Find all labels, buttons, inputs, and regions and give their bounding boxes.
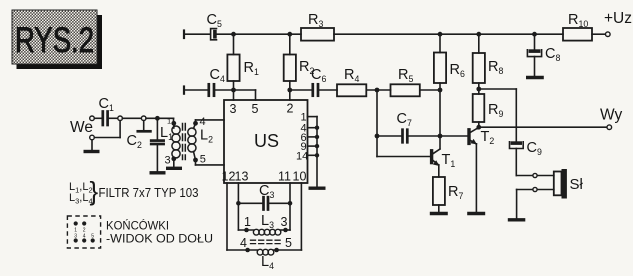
svg-text:C7: C7: [397, 111, 412, 128]
svg-text:R1: R1: [244, 60, 259, 77]
op-amp U1 IC US body: [224, 100, 308, 183]
resistor R5: [391, 67, 441, 96]
wire to pin 5: [234, 90, 256, 100]
svg-text:2: 2: [287, 102, 294, 116]
capacitor C3: [238, 183, 290, 210]
svg-text:5: 5: [252, 102, 259, 116]
svg-text:C2: C2: [127, 133, 142, 150]
node pin4 common: [315, 126, 319, 130]
svg-text:R4: R4: [344, 67, 359, 84]
transistor T2: [469, 127, 494, 211]
capacitor C5: [207, 12, 222, 40]
wire input line: [122, 117, 141, 119]
resistor R10: [563, 12, 592, 41]
node C2 junction: [155, 116, 160, 121]
svg-text:4: 4: [240, 236, 247, 250]
node rail-R1: [231, 32, 236, 37]
ground under T2 emitter: [467, 212, 485, 215]
wire R4 node down to T1 base: [377, 90, 431, 157]
svg-text:KOŃCÓWKI: KOŃCÓWKI: [106, 218, 169, 233]
node R8-R9 junction: [476, 87, 481, 92]
capacitor C7: [377, 111, 440, 142]
capacitor C2: [127, 118, 164, 171]
node test point with stub: [138, 116, 151, 131]
svg-text:4: 4: [200, 116, 206, 128]
terminal Wy: [600, 107, 622, 130]
svg-text:L3: L3: [261, 213, 274, 230]
node R4-R5 junction: [375, 88, 380, 93]
node pin9 common: [315, 144, 319, 148]
svg-text:R3: R3: [308, 12, 323, 29]
svg-text:1: 1: [167, 117, 171, 126]
node R1-C4 junction: [231, 88, 236, 93]
svg-text:L4: L4: [261, 254, 274, 271]
ground under R7: [430, 212, 448, 215]
wire L2 pin5 to US: [196, 160, 225, 165]
resistor R6: [434, 34, 465, 90]
svg-text:}: }: [90, 176, 99, 206]
node C7-T2base-T1coll: [438, 134, 443, 139]
terminal We input: [70, 116, 94, 140]
svg-text:10: 10: [293, 170, 307, 184]
svg-text:R8: R8: [488, 59, 503, 76]
node rail-C8: [532, 32, 537, 37]
transformer core L1-L2: [183, 124, 186, 160]
wire top supply rail: [184, 31, 605, 39]
svg-text:13: 13: [235, 170, 249, 184]
svg-text:C5: C5: [207, 12, 222, 29]
node R5-R6 junction: [438, 88, 443, 93]
wire pin11 down: [289, 183, 291, 230]
wire pin12 down: [226, 183, 228, 250]
value label filter note: [69, 176, 199, 206]
capacitor C1: [94, 96, 118, 125]
transistor T1: [432, 149, 456, 177]
svg-text:3: 3: [230, 102, 237, 116]
svg-text:3: 3: [281, 215, 288, 229]
node connector after C1: [118, 116, 123, 121]
resistor R1: [227, 34, 259, 90]
svg-text:Wy: Wy: [600, 107, 622, 124]
resistor R8: [473, 34, 504, 89]
svg-text:C1: C1: [99, 96, 114, 113]
node pin6 common: [315, 135, 319, 139]
svg-text:US: US: [254, 131, 279, 151]
wire to pin 3: [233, 90, 235, 100]
terminal +Uz: [604, 10, 632, 37]
resistor R4: [337, 67, 391, 96]
svg-text:L2: L2: [200, 128, 213, 145]
ground under C8: [526, 76, 544, 79]
resistor R3: [301, 12, 334, 41]
resistor R9: [473, 89, 504, 127]
transformer core L3-L4: [240, 236, 292, 250]
inductor L3: [238, 213, 290, 235]
svg-text:C9: C9: [527, 140, 542, 157]
inductor L4: [227, 248, 301, 271]
ground under C2: [150, 171, 166, 174]
node C3 right: [288, 201, 293, 206]
ground under L1: [166, 167, 182, 170]
svg-text:R7: R7: [448, 184, 463, 201]
legend pinout box: [67, 216, 100, 248]
wire L2 pin4 to US: [196, 120, 225, 123]
figure label RYS.2: [12, 10, 102, 69]
resistor R7: [433, 177, 464, 212]
svg-text:C4: C4: [210, 67, 225, 84]
wire speaker return: [517, 187, 554, 218]
wire C9 to speaker: [516, 173, 554, 177]
inductor L2 secondary: [188, 116, 213, 166]
svg-text:R10: R10: [568, 12, 588, 29]
node pin14 common: [315, 153, 319, 157]
svg-text:14: 14: [296, 150, 308, 162]
svg-text:We: We: [70, 119, 93, 136]
inductor L1 primary: [160, 117, 180, 167]
capacitor C6: [290, 67, 337, 96]
svg-text:C8: C8: [545, 46, 560, 63]
svg-text:T2: T2: [481, 129, 495, 146]
svg-text:5: 5: [285, 236, 292, 250]
capacitor C9: [510, 140, 542, 176]
svg-text:T1: T1: [442, 152, 456, 169]
wire pin10 down: [300, 183, 302, 250]
svg-text:-WIDOK OD DOŁU: -WIDOK OD DOŁU: [106, 232, 213, 246]
svg-text:L1: L1: [160, 125, 173, 142]
ground under US pins: [309, 186, 326, 189]
svg-text:RYS.2: RYS.2: [15, 21, 94, 60]
wire pin13 down: [237, 183, 239, 230]
svg-text:C3: C3: [259, 183, 274, 200]
node C3 left: [236, 201, 241, 206]
node R2-C6 junction: [287, 88, 292, 93]
capacitor C4: [184, 67, 234, 96]
svg-text:Sł: Sł: [570, 176, 584, 193]
svg-text:+Uz: +Uz: [604, 10, 632, 27]
svg-text:11: 11: [278, 170, 291, 184]
node T2 collector Wy: [476, 125, 481, 130]
wire bootstrap to C9: [479, 89, 517, 141]
svg-text:R6: R6: [450, 62, 465, 79]
wire T2 base line: [440, 135, 467, 137]
svg-text:3: 3: [165, 155, 171, 167]
node rail-R8: [476, 32, 481, 37]
node rail-R6: [438, 32, 443, 37]
ground under speaker: [508, 218, 526, 221]
wire to C2 node: [146, 117, 174, 119]
svg-text:R9: R9: [488, 102, 503, 119]
svg-text:1: 1: [244, 215, 251, 229]
node rail-R2: [287, 32, 292, 37]
ground under We: [84, 150, 100, 153]
node C7 left: [375, 134, 380, 139]
svg-text:R5: R5: [398, 67, 413, 84]
svg-text:12: 12: [222, 170, 236, 184]
svg-text:C6: C6: [311, 67, 326, 84]
speaker Sl: [554, 169, 584, 199]
capacitor C8: [527, 34, 560, 75]
wire We cold side: [92, 121, 120, 150]
svg-text:5: 5: [200, 154, 206, 166]
wire to pin 2: [289, 90, 291, 100]
resistor R2: [284, 34, 315, 90]
wire Wy line: [479, 126, 607, 128]
wire R6 node down: [439, 90, 441, 149]
svg-text:FILTR 7x7 TYP 103: FILTR 7x7 TYP 103: [99, 186, 199, 200]
wire right-side pins common: [308, 117, 318, 187]
